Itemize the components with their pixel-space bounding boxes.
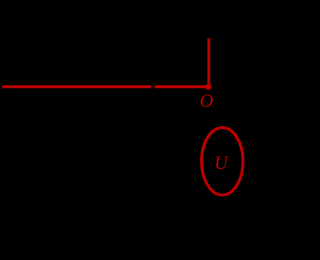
svg-text:U: U xyxy=(214,153,229,174)
svg-text:O: O xyxy=(200,91,214,112)
